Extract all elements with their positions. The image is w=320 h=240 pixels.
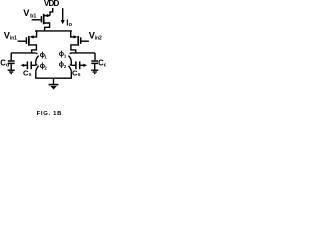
wire node X1 horizontal: [11, 52, 36, 54]
label Cd1: [0, 59, 9, 69]
svg-text:FIG. 1B: FIG. 1B: [37, 111, 63, 117]
wire M0 drain jog to tail rail: [45, 23, 50, 31]
wire between S3 and S4 right: [70, 61, 72, 65]
wire VDD stub to M0 source: [50, 8, 53, 16]
switch S3 phi1 right: [68, 53, 71, 61]
svg-text:VDD: VDD: [44, 0, 60, 8]
switch S4 phi2 right: [68, 65, 71, 71]
ground bottom center: [49, 78, 59, 89]
svg-text:2: 2: [44, 66, 47, 71]
wire right switch chain to bottom rail: [70, 71, 72, 78]
transistor M0 tail current source: [32, 14, 50, 24]
svg-text:2: 2: [64, 64, 67, 69]
svg-text:s: s: [78, 72, 81, 78]
label Cs1: [23, 69, 32, 79]
label Io: [66, 18, 72, 28]
svg-text:1: 1: [44, 54, 47, 59]
label Vb1: [23, 8, 36, 20]
svg-text:s: s: [29, 72, 32, 78]
svg-text:1: 1: [64, 54, 67, 59]
svg-text:b1: b1: [30, 14, 36, 20]
label Cs2: [72, 69, 81, 79]
svg-text:d: d: [104, 63, 106, 69]
switch S1 phi1 left: [36, 53, 39, 61]
wire bottom rail: [35, 77, 72, 79]
svg-text:in1: in1: [10, 36, 17, 42]
switch S2 phi2 left: [36, 65, 39, 71]
capacitor Cs1 with arrow: [21, 61, 36, 69]
wire M2 source to tail rail: [71, 31, 77, 37]
wire tail rail node A: [35, 30, 72, 32]
label Vin2: [89, 30, 102, 41]
wire left switch chain to bottom rail: [35, 71, 37, 78]
wire between S1 and S2 left: [35, 61, 37, 65]
label phi1 right: [59, 51, 67, 59]
ground at Cd2: [91, 70, 98, 73]
current arrow Io: [61, 8, 65, 24]
wire node X2 horizontal: [71, 52, 95, 54]
wire M2 drain jog to node X2: [71, 45, 77, 53]
label Vin1: [4, 30, 17, 41]
label phi1 left: [40, 52, 48, 60]
label phi2 left: [40, 63, 48, 71]
label Cd2: [98, 59, 107, 69]
transistor M2 right input: [74, 35, 89, 46]
wire M1 drain jog to node X1: [30, 45, 37, 53]
capacitor Cd1: [8, 53, 15, 70]
capacitor Cd2: [91, 53, 98, 70]
svg-text:d: d: [6, 63, 9, 69]
wire M1 source to tail rail: [31, 31, 37, 37]
svg-text:o: o: [69, 22, 73, 28]
transistor M1 left input: [18, 35, 34, 46]
label phi2 right: [59, 62, 67, 70]
ground at Cd1: [8, 70, 15, 73]
capacitor Cs2 with arrow: [71, 61, 87, 69]
svg-text:in2: in2: [95, 36, 102, 42]
